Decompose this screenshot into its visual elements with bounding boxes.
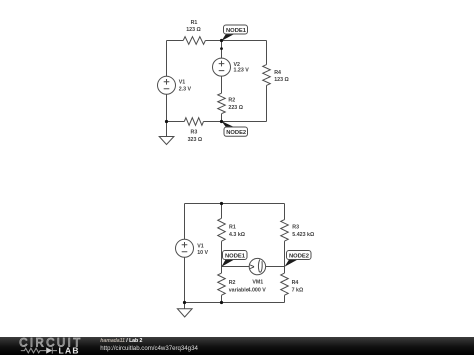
svg-text:LAB: LAB [59, 346, 80, 355]
svg-text:hamada11 / Lab 2: hamada11 / Lab 2 [100, 338, 142, 344]
svg-text:http://circuitlab.com/c4w37erq: http://circuitlab.com/c4w37erq34g34 [100, 345, 198, 352]
